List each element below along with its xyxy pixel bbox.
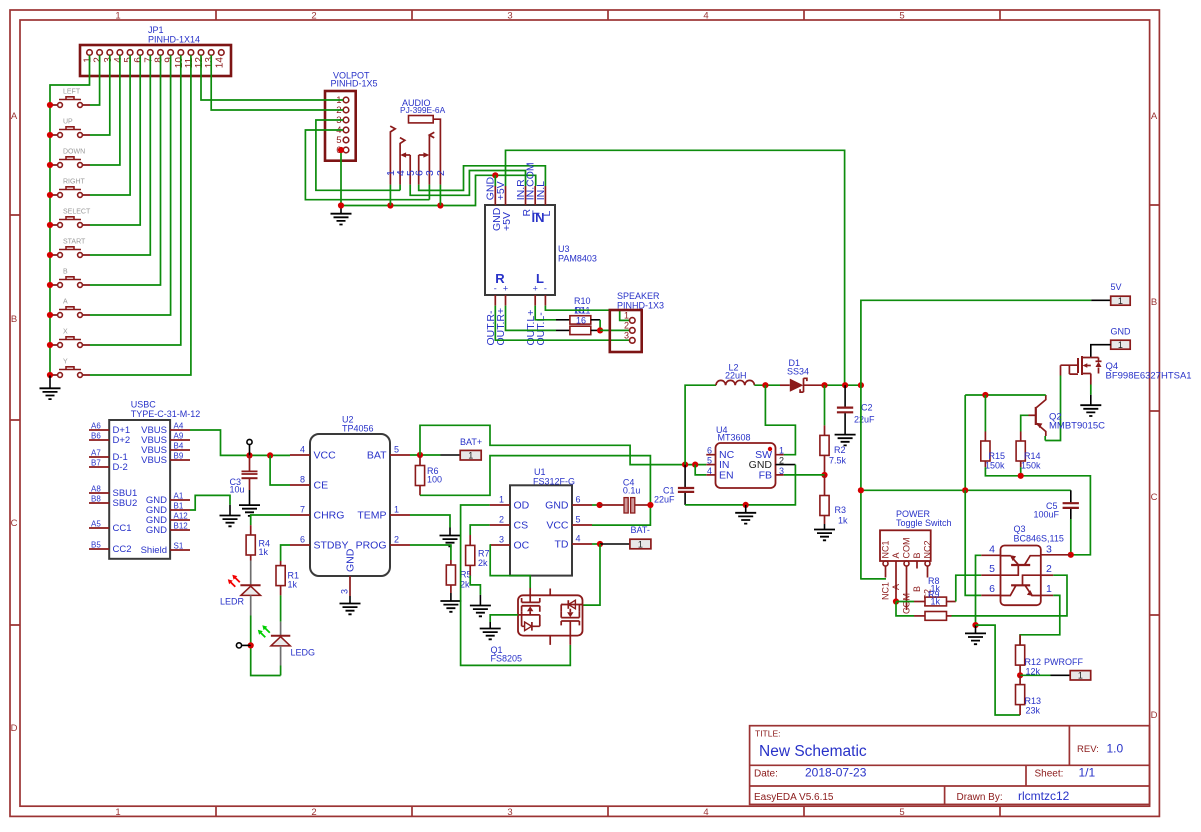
capacitor C1 22uF	[678, 465, 694, 505]
svg-text:NC1: NC1	[881, 540, 891, 558]
svg-text:PWROFF: PWROFF	[1044, 657, 1083, 667]
svg-text:2018-07-23: 2018-07-23	[805, 766, 867, 780]
junction VBUS C3 node	[246, 452, 252, 458]
border row ticks right	[1150, 205, 1160, 615]
junction speaker pin2 node	[597, 327, 603, 333]
svg-text:START: START	[63, 239, 86, 246]
wire 5V node rail	[823, 384, 861, 386]
svg-text:3: 3	[340, 589, 350, 594]
wire 5V riser to flag	[861, 300, 1091, 385]
wire Q2 base to R14	[1021, 415, 1029, 431]
wire LEDR to node	[251, 616, 281, 676]
wire 5V node to R2	[824, 385, 826, 425]
pushbutton DOWN	[50, 149, 90, 168]
wire 5V to POWER NC1	[861, 578, 886, 580]
svg-text:8: 8	[300, 475, 305, 485]
wire JP1 pin13 to VOLPOT pin2	[211, 55, 343, 110]
ground TEMP	[449, 528, 451, 536]
svg-text:GND: GND	[345, 548, 357, 572]
svg-text:3: 3	[507, 807, 512, 818]
wire R8 to Q3 pin5	[956, 575, 982, 601]
wire R10 right to speaker node	[591, 319, 600, 321]
svg-text:Date:: Date:	[754, 769, 778, 780]
wire U3 OUT.L+ to R10	[535, 306, 556, 320]
svg-text:1: 1	[1118, 340, 1123, 350]
wire audio pin4 stub	[399, 185, 401, 191]
wire U3 +5V to 5V rail	[506, 150, 845, 385]
wire PWROFF lead	[1020, 674, 1050, 676]
svg-text:3: 3	[779, 466, 784, 476]
svg-text:JP1: JP1	[148, 25, 164, 35]
svg-text:OC: OC	[514, 540, 530, 552]
svg-text:R12: R12	[1025, 657, 1042, 667]
svg-text:C2: C2	[861, 403, 873, 413]
wire U3 GND pin riser	[494, 175, 496, 186]
junction 5V riser	[858, 382, 864, 388]
C2 labels	[854, 403, 875, 425]
junction POWER A node	[893, 598, 899, 604]
wire Q3 pin4 to ground node	[976, 555, 982, 625]
svg-text:3: 3	[499, 535, 504, 545]
svg-text:PINHD-1X5: PINHD-1X5	[331, 79, 378, 89]
svg-text:5: 5	[576, 515, 581, 525]
svg-text:PAM8403: PAM8403	[558, 254, 597, 264]
svg-text:TP4056: TP4056	[342, 424, 374, 434]
junction R14 bottom	[1018, 473, 1024, 479]
svg-text:VCC: VCC	[546, 520, 569, 532]
svg-text:A9: A9	[174, 432, 184, 441]
svg-text:1/1: 1/1	[1079, 766, 1096, 780]
svg-text:Shield: Shield	[141, 545, 167, 556]
svg-text:4: 4	[703, 807, 708, 818]
svg-text:GND: GND	[545, 500, 569, 512]
junction button A rail	[47, 312, 53, 318]
svg-text:IN.L: IN.L	[535, 181, 547, 200]
inductor L2 22uH	[716, 380, 754, 385]
svg-text:7.5k: 7.5k	[829, 456, 847, 466]
connector PWROFF	[1070, 671, 1091, 681]
wire U2 STDBY to R1	[281, 545, 290, 561]
junction BAT node	[417, 452, 423, 458]
border column numbers top	[115, 11, 904, 22]
U3 bottom pin names inside	[494, 271, 547, 294]
audio jack AUDIO PJ-399E-6A	[390, 116, 440, 185]
svg-text:Sheet:: Sheet:	[1035, 769, 1064, 780]
svg-text:D: D	[11, 723, 18, 734]
junction 5V C2	[842, 382, 848, 388]
U1 pin names and numbers	[499, 495, 581, 552]
wire U3 OUT.R+ to R11	[506, 306, 557, 331]
svg-text:NC2: NC2	[923, 540, 933, 558]
junction button RIGHT rail	[47, 192, 53, 198]
wire 490 rail to C5	[861, 489, 1071, 491]
boost IC U4 MT3608	[706, 443, 795, 488]
svg-text:100uF: 100uF	[1034, 510, 1060, 520]
svg-text:R14: R14	[1024, 451, 1041, 461]
svg-text:IN: IN	[532, 210, 545, 225]
wire Q2 emitter lead	[1044, 436, 1046, 441]
svg-text:6: 6	[300, 535, 305, 545]
svg-text:GND: GND	[146, 525, 167, 536]
transistor Q4 BF998E6327HTSA1	[1061, 356, 1102, 385]
border column numbers bottom	[115, 807, 904, 818]
wire ground node to R13	[976, 625, 1021, 715]
wire R7 to ground	[470, 576, 480, 595]
svg-text:B: B	[63, 269, 68, 276]
resistor R15 150k	[981, 395, 1005, 471]
wire R11 left lead	[556, 329, 570, 331]
wire button UP to JP1 pin3	[90, 55, 110, 135]
ground R3	[824, 524, 826, 530]
svg-text:+: +	[533, 284, 538, 294]
wire CE riser	[270, 455, 290, 485]
svg-text:4: 4	[300, 445, 305, 455]
wire USBC GND B1 to ground	[190, 495, 230, 510]
protection IC U1 FS312F-G	[490, 485, 592, 575]
U3 top pin names outside	[485, 162, 547, 200]
wire VOLPOT pin6 to ground rail	[341, 150, 343, 206]
svg-text:B: B	[912, 552, 922, 558]
POWER pin names below	[881, 582, 933, 614]
wire USBC VBUS A4 to U2 VCC	[190, 430, 290, 455]
svg-text:1: 1	[468, 451, 473, 461]
wire Q3 pin1 stub	[1041, 594, 1053, 596]
LED LEDR	[228, 561, 261, 616]
junction U1 GND C4	[597, 502, 603, 508]
svg-text:VCC: VCC	[314, 450, 337, 462]
U3 top pin names inside	[491, 207, 553, 231]
pushbutton A	[50, 299, 90, 318]
L2 labels	[725, 363, 747, 381]
svg-text:A1: A1	[174, 492, 184, 501]
audio jack labels	[400, 98, 446, 115]
wire 5V flag lead	[1091, 299, 1111, 301]
svg-text:1: 1	[1078, 671, 1083, 681]
svg-text:C: C	[1151, 492, 1158, 503]
svg-text:OD: OD	[514, 500, 530, 512]
svg-text:New Schematic: New Schematic	[759, 743, 867, 760]
ground R5	[450, 593, 452, 601]
svg-text:1: 1	[779, 446, 784, 456]
svg-text:TEMP: TEMP	[357, 510, 386, 522]
svg-text:4: 4	[703, 11, 708, 22]
svg-text:R15: R15	[989, 451, 1006, 461]
wire U1 OC to Q1 gate	[490, 545, 531, 588]
wire button X to JP1 pin10	[90, 55, 181, 345]
wire U2 PROG to R5	[410, 545, 451, 560]
LED LEDG	[258, 595, 291, 675]
svg-text:2: 2	[624, 320, 629, 330]
junction 490 rail Q3	[962, 487, 968, 493]
junction FB divider	[821, 472, 827, 478]
U2 pin names and numbers	[300, 445, 399, 595]
connector VOLPOT PINHD-1X5	[325, 91, 356, 161]
wire U4 FB to divider	[784, 474, 825, 476]
svg-text:B5: B5	[91, 541, 101, 550]
VOLPOT pin numbers	[336, 95, 341, 156]
wire audio pin3 stub	[428, 185, 430, 200]
wire audio pin1 to ground rail	[389, 185, 391, 206]
svg-text:5: 5	[707, 456, 712, 466]
svg-text:A: A	[63, 299, 68, 306]
wire Q3 pin4 stub	[981, 554, 1000, 556]
wire Q3 pin2 stub	[1041, 574, 1053, 576]
pushbutton X	[50, 329, 90, 348]
svg-text:R2: R2	[834, 445, 846, 455]
ground Q3 divider	[975, 625, 977, 633]
wire U4 GND loop	[685, 465, 795, 505]
wire R11 right lead	[591, 329, 600, 331]
wire Q3 pin3 stub	[1041, 554, 1071, 556]
wire Q3 pin5 stub	[981, 574, 1000, 576]
wire BAT- node to Q1 right pin	[583, 544, 601, 605]
svg-text:CE: CE	[314, 480, 329, 492]
svg-text:Q3: Q3	[1014, 524, 1026, 534]
svg-text:3: 3	[1046, 544, 1052, 556]
resistor R9 1k	[914, 612, 952, 621]
USBC right pin names	[141, 425, 168, 556]
junction button LEFT rail	[47, 102, 53, 108]
wire R10 left lead	[556, 319, 570, 321]
svg-text:R3: R3	[835, 505, 847, 515]
wire rail to 490 rail	[964, 395, 966, 490]
wire button SELECT to JP1 pin6	[90, 55, 140, 225]
border row letters right	[1151, 111, 1158, 721]
svg-text:6: 6	[576, 495, 581, 505]
svg-text:A: A	[1151, 111, 1158, 122]
svg-text:X: X	[63, 329, 68, 336]
svg-text:COM: COM	[902, 538, 912, 559]
wire 5V 490 rail	[861, 385, 886, 579]
U3 labels	[558, 244, 597, 264]
wire BAT- connector lead	[600, 543, 630, 545]
svg-text:CHRG: CHRG	[314, 510, 345, 522]
svg-text:B6: B6	[91, 432, 101, 441]
svg-text:4: 4	[576, 534, 581, 544]
junction D1 R2	[821, 382, 827, 388]
junction ground rail start	[338, 202, 344, 208]
pushbutton RIGHT	[50, 179, 90, 198]
U3 bottom pin names outside	[485, 308, 547, 346]
svg-text:1k: 1k	[931, 597, 941, 607]
junction ground rail audio pin2	[437, 202, 443, 208]
svg-text:rlcmtzc12: rlcmtzc12	[1018, 789, 1070, 803]
junction button X rail	[47, 342, 53, 348]
svg-text:B: B	[1151, 297, 1157, 308]
junction LEDR node	[248, 642, 254, 648]
svg-text:TYPE-C-31-M-12: TYPE-C-31-M-12	[131, 409, 201, 419]
C3 labels	[230, 477, 245, 495]
svg-text:EN: EN	[719, 469, 734, 481]
svg-text:150k: 150k	[1021, 461, 1041, 471]
svg-text:PINHD-1X3: PINHD-1X3	[617, 301, 664, 311]
pushbutton LEFT	[50, 89, 90, 108]
svg-text:5: 5	[899, 807, 904, 818]
U2 labels	[342, 415, 374, 434]
svg-text:A6: A6	[91, 422, 101, 431]
pushbutton SELECT	[50, 209, 91, 228]
diode D1 SS34	[780, 378, 823, 392]
wire R15 top rail	[965, 394, 1046, 396]
svg-text:SS34: SS34	[787, 367, 809, 377]
svg-text:B1: B1	[174, 502, 184, 511]
connector BAT-	[630, 539, 651, 549]
wire IN node to L2	[685, 385, 716, 464]
svg-text:B9: B9	[174, 452, 184, 461]
svg-text:D-2: D-2	[113, 462, 128, 473]
svg-text:5V: 5V	[1111, 282, 1122, 292]
wire button DOWN to JP1 pin4	[90, 55, 120, 165]
wire JP1 pin1 to button rail	[50, 55, 90, 375]
wire U4 EN to IN	[695, 465, 706, 475]
junction PWROFF node	[1017, 672, 1023, 678]
svg-text:U1: U1	[534, 467, 546, 477]
svg-text:DOWN: DOWN	[63, 149, 85, 156]
USBC left pin numbers	[91, 422, 101, 550]
svg-text:-: -	[494, 284, 497, 294]
svg-text:TITLE:: TITLE:	[755, 729, 781, 739]
wire button LEFT to JP1 pin2	[90, 55, 100, 105]
svg-text:100: 100	[427, 475, 442, 485]
svg-text:CS: CS	[514, 520, 529, 532]
svg-text:5: 5	[394, 445, 399, 455]
svg-text:2k: 2k	[478, 558, 488, 568]
resistor R11	[570, 326, 591, 334]
junction TD BAT- node	[597, 541, 603, 547]
svg-text:14: 14	[214, 57, 225, 69]
svg-text:FB: FB	[759, 469, 772, 481]
R8 R9 labels	[928, 576, 941, 607]
svg-text:BAT: BAT	[367, 450, 387, 462]
svg-text:1k: 1k	[259, 547, 269, 557]
svg-text:R13: R13	[1025, 696, 1042, 706]
svg-text:PJ-399E-6A: PJ-399E-6A	[400, 105, 446, 115]
Q4 labels	[1106, 361, 1192, 382]
wire U2 CHRG to R4	[251, 515, 290, 525]
wire audio pin6 to U3 IN.L	[419, 166, 546, 191]
svg-text:2: 2	[779, 456, 784, 466]
svg-text:A5: A5	[91, 520, 101, 529]
U1 labels	[533, 467, 575, 487]
junction ground node Q3	[972, 622, 978, 628]
svg-text:S1: S1	[174, 542, 184, 551]
svg-text:6: 6	[989, 583, 995, 595]
svg-text:2: 2	[1046, 563, 1052, 575]
resistor R1 1k	[276, 561, 299, 595]
svg-text:A8: A8	[91, 485, 101, 494]
junction VBUS CE node	[267, 452, 273, 458]
svg-text:SBU2: SBU2	[113, 498, 138, 509]
svg-text:R7: R7	[478, 549, 490, 559]
resistor R6 100	[415, 455, 442, 495]
wire audio pin2 to ground rail	[439, 185, 441, 206]
wire U2 TEMP to ground	[410, 515, 450, 528]
svg-text:4: 4	[707, 466, 712, 476]
resistor R3 1k	[820, 475, 848, 526]
svg-text:+5V: +5V	[501, 212, 513, 231]
svg-text:BAT+: BAT+	[460, 437, 482, 447]
svg-text:BF998E6327HTSA1: BF998E6327HTSA1	[1106, 371, 1192, 382]
ground Q1 left	[489, 622, 491, 629]
svg-text:2: 2	[435, 170, 447, 176]
wire audio ground rail to U3 GND and IN.COM	[341, 175, 536, 205]
svg-text:NC1: NC1	[881, 582, 891, 600]
capacitor C2 22uF	[837, 385, 853, 434]
wire button Y to JP1 pin11	[90, 55, 191, 375]
resistor R12 12k	[1016, 635, 1042, 677]
resistor R13 23k	[1016, 675, 1042, 715]
wire R15 R14 bottoms to Q3 pin3 node	[985, 467, 1090, 555]
svg-text:A12: A12	[174, 512, 189, 521]
junction button START rail	[47, 252, 53, 258]
junction ground rail audio pin1	[387, 202, 393, 208]
wire R9 to Q3 pin2	[952, 575, 1068, 616]
wire U2 BAT to node	[410, 454, 441, 456]
C1 labels	[654, 486, 675, 505]
Q1 labels	[491, 645, 523, 664]
resistor R8 1k	[914, 597, 956, 606]
wire Q4 source to ground	[1090, 385, 1092, 395]
JP1 pin numbers 1-14	[83, 57, 226, 69]
wire node to speaker pin2	[600, 329, 629, 331]
svg-text:1: 1	[638, 539, 643, 549]
wire Q3 pin6 stub	[981, 594, 1000, 596]
wire button RIGHT to JP1 pin5	[90, 55, 130, 195]
junction R15 top	[982, 392, 988, 398]
svg-text:LEDR: LEDR	[220, 597, 245, 607]
svg-text:-: -	[544, 284, 547, 294]
junction U4 IN node C1	[682, 462, 688, 468]
resistor R4 1k	[246, 525, 270, 560]
svg-text:B: B	[912, 586, 922, 592]
switch POWER Toggle Switch	[880, 530, 933, 610]
svg-text:A: A	[891, 584, 901, 590]
svg-text:B7: B7	[91, 459, 101, 468]
svg-text:23k: 23k	[1026, 706, 1041, 716]
junction U4 ground tap	[743, 502, 749, 508]
junction U3 GND riser	[492, 172, 498, 178]
svg-text:2: 2	[394, 535, 399, 545]
pushbutton B	[50, 269, 90, 288]
SPEAKER labels	[617, 291, 664, 311]
ground R7	[479, 595, 481, 606]
Q2 labels	[1049, 412, 1105, 432]
junction C4 right on VCC riser	[647, 502, 653, 508]
transistor Q3 BC846S,115	[1001, 546, 1041, 606]
wire U1 GND to C4	[592, 504, 600, 506]
wire audio pin5 to U3 IN.R	[410, 171, 525, 196]
ground button rail	[49, 376, 51, 389]
transistor Q1 FS8205 dual MOSFET	[518, 588, 583, 645]
svg-text:LEDG: LEDG	[291, 648, 316, 658]
wire Q3 pin1 to R12	[1020, 595, 1060, 645]
junction 490 rail left	[858, 487, 864, 493]
svg-text:+: +	[503, 284, 508, 294]
svg-text:PROG: PROG	[356, 540, 387, 552]
wire button A to JP1 pin9	[90, 55, 171, 315]
svg-text:1: 1	[499, 495, 504, 505]
border column ticks bottom	[216, 806, 1000, 816]
JP1 labels	[148, 25, 200, 45]
wire R6 bottom to U1 VCC (lower path)	[420, 456, 650, 525]
ground U2 GND	[349, 596, 351, 604]
svg-text:2: 2	[311, 11, 316, 22]
pushbutton UP	[50, 119, 90, 138]
junction button Y rail	[47, 372, 53, 378]
svg-text:COM: COM	[902, 593, 912, 614]
svg-text:1k: 1k	[838, 516, 848, 526]
net flag 5V	[1111, 282, 1131, 306]
